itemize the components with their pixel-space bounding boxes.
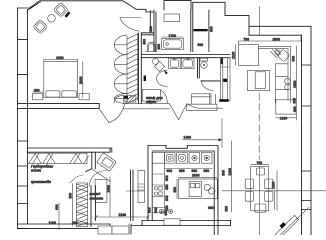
kitchen L cabinet square xyxy=(232,45,259,66)
wardrobe dim vertical xyxy=(55,203,59,230)
cabinet 1100 xyxy=(276,98,297,121)
left column sink symbols xyxy=(154,187,162,196)
kitchen left cabinet column xyxy=(152,153,164,213)
svg-text:600: 600 xyxy=(291,56,295,62)
svg-text:1500: 1500 xyxy=(293,80,297,88)
shower room wall xyxy=(208,10,210,52)
outer wall left band xyxy=(18,8,28,229)
wardrobe label text xyxy=(31,165,53,185)
svg-text:600: 600 xyxy=(154,207,158,213)
armchair 1 xyxy=(33,19,48,34)
svg-text:600: 600 xyxy=(157,44,161,50)
kitchen island xyxy=(179,179,218,198)
svg-text:полка+: полка+ xyxy=(90,192,101,196)
dining chairs right xyxy=(265,179,273,201)
wardrobe dim bottom 1100 xyxy=(49,193,78,225)
dining dim left vertical xyxy=(222,141,232,212)
corridor wall lines xyxy=(131,170,134,221)
svg-text:1200: 1200 xyxy=(271,181,275,189)
svg-text:полка: полка xyxy=(31,169,41,173)
svg-text:600: 600 xyxy=(204,169,210,173)
bedroom bottom wall xyxy=(18,104,100,109)
hall bench hatched box xyxy=(125,96,136,102)
kitchen walls xyxy=(148,146,218,236)
burner symbol 2 xyxy=(204,155,209,160)
svg-text:600: 600 xyxy=(210,26,214,32)
svg-text:2000: 2000 xyxy=(192,174,200,178)
svg-text:600: 600 xyxy=(293,106,297,112)
dining dim 700 xyxy=(251,161,269,165)
svg-text:450: 450 xyxy=(165,184,169,190)
kitchen upper row dims xyxy=(164,169,212,174)
door pivot circles xyxy=(159,209,172,213)
kitchen balcony threshold xyxy=(164,219,180,225)
svg-text:600: 600 xyxy=(55,204,59,210)
svg-text:600: 600 xyxy=(165,175,169,181)
washer symbol 1 xyxy=(166,155,173,162)
diagonal balcony door on corner cut xyxy=(275,215,298,238)
svg-text:600: 600 xyxy=(147,207,151,213)
hall small door leaf top xyxy=(114,95,128,103)
svg-text:300: 300 xyxy=(72,221,78,225)
balcony door bottom-left xyxy=(98,224,129,234)
svg-text:2130: 2130 xyxy=(119,213,127,217)
vanity corner sink xyxy=(153,58,165,71)
svg-text:600: 600 xyxy=(198,43,204,47)
kitchen bottom dim ticks xyxy=(147,206,213,216)
balcony corner diagonal line xyxy=(297,208,309,220)
toilet room door leaf and arc xyxy=(201,80,220,91)
round table xyxy=(48,14,56,22)
kitchen L right arm cells xyxy=(275,64,288,103)
right wall dim texts xyxy=(291,46,297,120)
outer wall top bathroom bump xyxy=(164,1,191,10)
svg-text:600: 600 xyxy=(142,39,146,45)
svg-text:800: 800 xyxy=(149,26,153,32)
corridor shelf cabinet xyxy=(95,179,107,202)
nightstand right xyxy=(79,93,89,99)
corner rotated chair xyxy=(97,153,117,172)
toilet 2 xyxy=(200,58,208,68)
svg-text:2000: 2000 xyxy=(273,38,281,42)
bed xyxy=(44,62,78,98)
outer wall bottom center xyxy=(131,221,231,235)
dim ext line dining bottom xyxy=(273,191,275,210)
svg-text:вешалка: вешалка xyxy=(90,197,104,201)
svg-text:обуви: обуви xyxy=(146,100,156,104)
svg-text:1400: 1400 xyxy=(184,136,192,140)
outer wall top-right steps xyxy=(193,2,311,35)
svg-text:600: 600 xyxy=(179,169,185,173)
bathtub dim xyxy=(162,34,183,38)
kitchen opening dim xyxy=(183,119,222,148)
svg-text:700: 700 xyxy=(244,38,250,42)
left column dim texts xyxy=(165,175,169,211)
vent centerline solid top xyxy=(259,7,261,235)
hall shoe cabinet box xyxy=(142,90,160,102)
svg-text:600: 600 xyxy=(165,195,169,201)
svg-text:600: 600 xyxy=(208,206,214,210)
outer wall right window band xyxy=(302,26,312,235)
vanity wall end dim mark xyxy=(144,76,146,82)
wc toilet xyxy=(146,42,157,51)
svg-text:2000: 2000 xyxy=(79,76,83,84)
corridor dim vertical xyxy=(106,177,110,217)
svg-text:1500: 1500 xyxy=(106,185,110,193)
wardrobe shelf label xyxy=(90,191,145,201)
svg-text:300: 300 xyxy=(69,193,73,199)
svg-text:600: 600 xyxy=(167,169,173,173)
dashed centerline xyxy=(258,93,260,160)
burner symbol 1 xyxy=(192,155,197,160)
corridor dim 2130 xyxy=(95,213,150,219)
bed dim 1600 xyxy=(44,56,78,61)
svg-text:300: 300 xyxy=(222,170,226,176)
svg-text:900: 900 xyxy=(224,206,228,212)
clothes rail hatched band xyxy=(27,153,88,163)
bedroom door leaf and arc xyxy=(99,104,125,123)
vanity sink 1 xyxy=(169,58,181,68)
svg-text:600: 600 xyxy=(164,210,168,216)
svg-text:400: 400 xyxy=(34,88,40,92)
island hob circles xyxy=(204,184,215,194)
svg-text:1200: 1200 xyxy=(228,168,232,176)
svg-text:кронштейн: кронштейн xyxy=(31,180,51,184)
washer symbol 2 xyxy=(179,155,186,162)
island dim 2000 xyxy=(179,174,217,178)
hall to living V door xyxy=(160,90,222,120)
svg-text:1100: 1100 xyxy=(49,221,56,225)
shower bench black xyxy=(194,29,208,47)
hall bench white box xyxy=(187,94,217,111)
wardrobe door arcs xyxy=(70,169,111,186)
dining chairs left xyxy=(245,179,253,201)
corridor radiator xyxy=(138,170,144,202)
dining dim right vertical xyxy=(271,171,277,211)
wardrobe room top wall xyxy=(27,148,111,152)
wardrobe shelf dim line xyxy=(72,184,74,227)
bath doors bifold arcs xyxy=(157,70,168,88)
hall label text xyxy=(146,96,163,104)
svg-text:600: 600 xyxy=(293,98,297,104)
fridge column xyxy=(219,58,230,102)
svg-text:1700: 1700 xyxy=(169,34,177,38)
bathroom walls xyxy=(154,10,193,52)
hall podium band xyxy=(124,102,170,109)
nightstand left xyxy=(33,93,43,99)
wardrobe shelf vertical hatched xyxy=(77,183,88,227)
right arm sink circles xyxy=(285,78,291,90)
dining chair bottom xyxy=(255,204,266,212)
bed pillows xyxy=(46,91,76,97)
corner sink diagonal xyxy=(271,49,290,62)
bed dim 2000 vertical xyxy=(79,62,83,98)
svg-text:600: 600 xyxy=(173,187,177,193)
bathroom mirror xyxy=(164,14,180,22)
wardrobe east wall xyxy=(86,152,96,226)
dining table xyxy=(251,167,269,211)
toilet room wall xyxy=(198,58,200,78)
svg-text:600: 600 xyxy=(192,169,198,173)
hall south wall xyxy=(141,55,230,58)
armchair 2 xyxy=(53,2,68,17)
dining chair top xyxy=(256,168,264,175)
bathroom bathtub xyxy=(162,38,184,49)
wc dim text xyxy=(142,26,161,49)
kitchen L counter top arm xyxy=(259,46,291,102)
vanity sink 2 xyxy=(181,58,194,68)
svg-text:1100: 1100 xyxy=(232,52,236,59)
entrance door xyxy=(120,18,141,32)
entrance closet door arcs xyxy=(114,35,127,104)
armchair 2 dim mark xyxy=(65,11,71,17)
nightstand dim 400 xyxy=(33,88,43,92)
svg-text:1600: 1600 xyxy=(56,56,64,60)
entrance closet hatched band xyxy=(127,33,138,104)
svg-text:700: 700 xyxy=(257,161,263,165)
top right dim line 700-2000 xyxy=(238,36,301,45)
island square table top right xyxy=(248,70,270,90)
outer wall top-left diagonal and top edge xyxy=(18,1,154,12)
svg-text:1100: 1100 xyxy=(280,116,287,120)
kitchen upper cabinet row xyxy=(164,153,212,164)
island dim vertical xyxy=(173,179,177,198)
long dim line y190 xyxy=(222,190,326,192)
island sink cabinet xyxy=(189,182,201,197)
outer wall bottom left xyxy=(18,224,110,229)
wc room walls xyxy=(139,11,155,104)
